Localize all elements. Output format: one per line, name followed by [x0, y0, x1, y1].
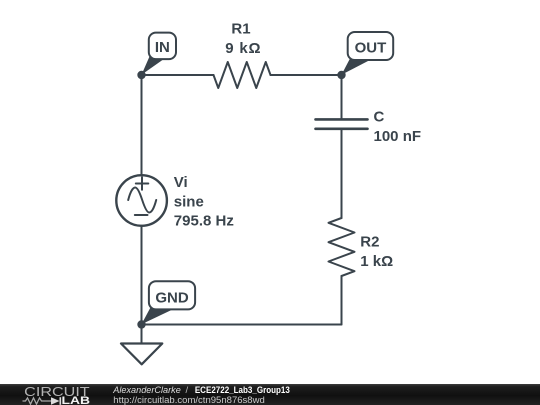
svg-text:IN: IN: [155, 39, 170, 56]
label Vi value: [174, 174, 234, 230]
resistor R1 body: [214, 62, 271, 88]
footer bar: [0, 384, 540, 405]
svg-text:LAB: LAB: [62, 395, 91, 405]
node label IN flag: [142, 33, 177, 75]
wire right vertical up to R2 bottom: [341, 276, 343, 325]
svg-text:OUT: OUT: [355, 39, 387, 56]
wire capacitor top plate to OUT node: [341, 75, 343, 119]
wire IN node down to Vi top: [141, 75, 143, 175]
wire bottom horizontal: [142, 324, 342, 326]
CircuitLab logo resistor zigzag: [23, 398, 52, 404]
wire Vi bottom to GND node: [141, 226, 143, 325]
footer url line 2: [113, 395, 264, 405]
svg-text:GND: GND: [155, 289, 189, 306]
node OUT junction dot: [337, 71, 345, 79]
svg-text:R1: R1: [231, 21, 250, 38]
voltage source Vi plus sign: [136, 177, 149, 189]
ground lead wire: [141, 325, 143, 344]
svg-text:sine: sine: [174, 194, 204, 211]
node GND junction dot: [137, 320, 145, 328]
wire IN node to R1 left lead: [142, 74, 214, 76]
label R1 value: [225, 21, 261, 58]
voltage source Vi minus sign: [135, 214, 148, 216]
node label OUT flag: [342, 32, 394, 75]
voltage source Vi sine waveform: [128, 188, 156, 213]
svg-text:9 kΩ: 9 kΩ: [225, 40, 261, 57]
svg-text:795.8 Hz: 795.8 Hz: [174, 213, 234, 230]
resistor R2 body: [329, 218, 355, 276]
svg-text:http://circuitlab.com/ctn95n87: http://circuitlab.com/ctn95n876s8wd: [113, 395, 264, 405]
label R2 value: [360, 234, 393, 270]
svg-text:R2: R2: [360, 234, 379, 251]
CircuitLab logo wordmark CIRCUIT: [24, 385, 90, 399]
svg-text:Vi: Vi: [174, 174, 188, 191]
label C value: [374, 109, 422, 145]
wire R1 right lead to OUT node: [271, 74, 342, 76]
node IN junction dot: [137, 71, 145, 79]
svg-text:1 kΩ: 1 kΩ: [360, 253, 393, 270]
svg-text:100 nF: 100 nF: [374, 128, 422, 145]
svg-text:C: C: [374, 109, 385, 126]
ground symbol triangle: [121, 344, 162, 365]
wire R2 top to capacitor bottom plate: [341, 129, 343, 218]
CircuitLab logo wordmark LAB: [62, 395, 91, 405]
voltage source Vi circle: [116, 175, 167, 226]
footer credit line 1: [112, 385, 290, 396]
CircuitLab logo diode symbol: [51, 397, 60, 405]
capacitor C plates: [316, 119, 368, 128]
node label GND flag: [142, 281, 196, 324]
